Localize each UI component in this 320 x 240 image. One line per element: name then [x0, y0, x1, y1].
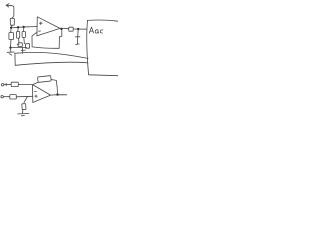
wire W1 to ADC: [15, 52, 88, 58]
wire J1 to R7: [4, 83, 11, 85]
resistor R1: [10, 18, 14, 25]
feedback resistor R9: [38, 76, 52, 83]
U2 output junction dot: [56, 93, 58, 95]
junction dot at C3: [77, 28, 79, 30]
wire R8 to U2: [16, 95, 33, 98]
wire J2 to R8: [3, 96, 9, 98]
op-amp U1 triangle: [37, 17, 60, 36]
input terminal J1: [2, 84, 4, 86]
junction dot node A1: [10, 27, 12, 29]
ground GND1: [10, 48, 12, 52]
U1 feedback wire: [32, 29, 62, 48]
resistor R5: [69, 27, 74, 31]
ADC box: [88, 20, 119, 21]
wire U1 output: [60, 27, 69, 29]
wire R4 down: [23, 37, 26, 43]
resistor R3 (below dot A2): [17, 28, 19, 32]
ground rail wire: [11, 46, 27, 48]
U2 plus sign: [35, 95, 38, 98]
node A rail: [11, 26, 37, 28]
input terminal J2: [1, 96, 3, 98]
resistor R10: [22, 104, 26, 110]
wire W1-W2 left vertical: [14, 53, 16, 65]
U1 output junction dot: [60, 28, 62, 30]
wire R3 down: [18, 38, 21, 43]
wire W2 to ADC: [15, 62, 88, 65]
probe arrow (top-left input): [6, 5, 14, 18]
resistor R4 (below dot A3): [23, 27, 25, 31]
resistor R7: [11, 82, 18, 86]
junction dot node A3: [23, 26, 25, 28]
junction dot ground node: [9, 47, 11, 49]
feedback wire U2 up: [33, 82, 38, 84]
capacitor C3 to ground: [77, 29, 80, 36]
U2 minus sign: [35, 90, 37, 92]
wire R7 to U2: [18, 84, 32, 86]
wire R10 to ground: [22, 110, 24, 114]
resistor R8: [10, 95, 16, 99]
junction dot node A2: [17, 26, 19, 28]
feedback wire U2 down: [51, 80, 58, 95]
U1 plus sign: [40, 22, 43, 25]
wire U2 output: [51, 94, 67, 96]
ground GND2: [18, 113, 29, 115]
ground tick under rail: [22, 48, 24, 54]
capacitor C2 box: [25, 44, 29, 49]
op-amp U2 triangle: [33, 85, 51, 103]
wire branch to R10: [24, 97, 28, 103]
wire R1 bottom to node A: [11, 25, 12, 27]
resistor R2 (below dot A1): [10, 28, 12, 32]
U1 minus sign: [39, 30, 41, 32]
wire R2 to ground node: [10, 40, 13, 48]
ADC label: [89, 27, 103, 33]
wire R5 to ADC: [73, 28, 87, 30]
capacitor C1 box: [18, 43, 22, 47]
